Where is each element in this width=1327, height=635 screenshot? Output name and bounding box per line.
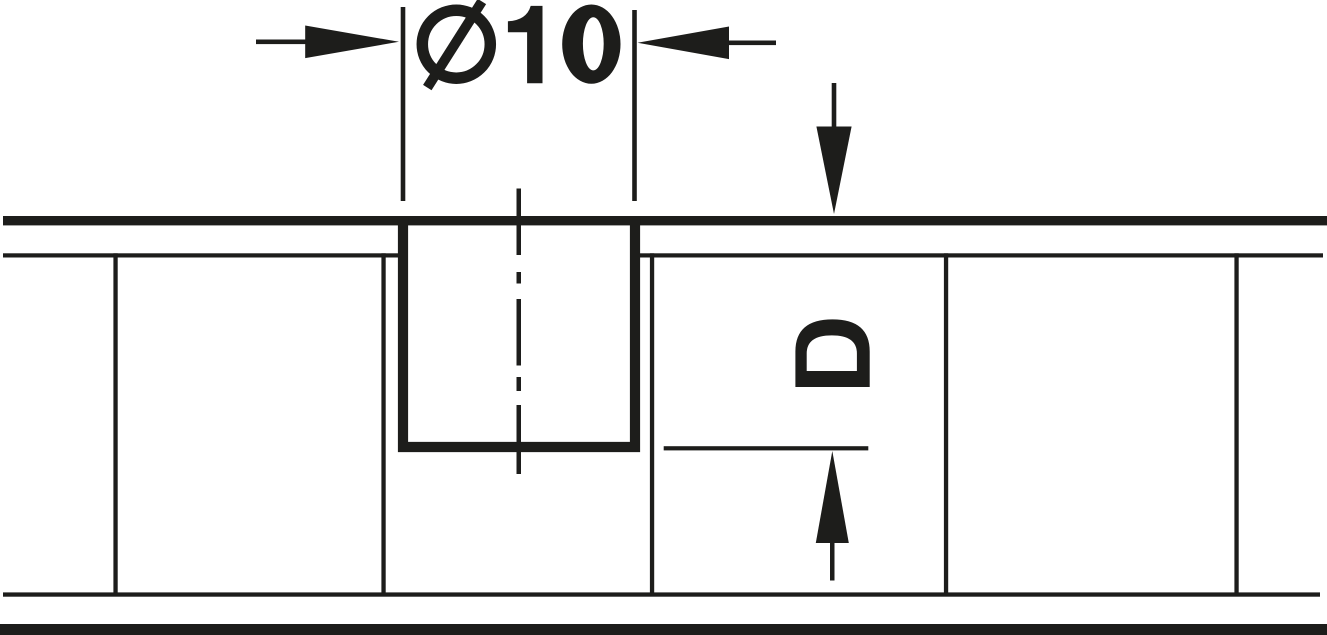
board divider line 5: [1234, 253, 1238, 596]
centerline dash 3: [517, 405, 522, 474]
right extension line: [632, 10, 637, 201]
depth letter D (rotated): [795, 319, 869, 387]
diameter symbol circle: [422, 10, 490, 78]
board divider line 2: [381, 253, 385, 596]
left dimension arrow tail: [256, 40, 310, 45]
upper veneer line right segment: [640, 253, 1323, 257]
depth dimension line: [664, 446, 869, 450]
right dimension arrowhead: [638, 27, 730, 60]
centerline dot 2: [517, 377, 522, 391]
left dimension arrowhead: [305, 26, 399, 59]
top depth arrow tail: [832, 83, 837, 129]
centerline dash 1: [517, 189, 522, 256]
right dimension arrow tail: [727, 41, 776, 46]
digit 1 of dimension text: [508, 6, 543, 83]
centerline dash 2: [517, 299, 522, 366]
bottom depth arrowhead pointing up: [816, 451, 849, 543]
centerline dot 1: [517, 272, 522, 284]
diameter symbol slash: [427, 2, 482, 88]
board divider line 3: [650, 253, 654, 596]
digit 0 of dimension text: [562, 4, 620, 83]
drilled hole outline: [403, 218, 635, 447]
top depth arrowhead pointing down: [816, 127, 851, 215]
bottom depth arrow tail: [830, 540, 835, 581]
top surface line: [3, 216, 1327, 225]
upper veneer line left segment: [3, 253, 398, 257]
board divider line 1: [113, 253, 117, 596]
bottom veneer line: [3, 592, 1320, 596]
left extension line: [401, 7, 406, 201]
board divider line 4: [944, 253, 948, 596]
bottom surface line: [0, 624, 1327, 635]
